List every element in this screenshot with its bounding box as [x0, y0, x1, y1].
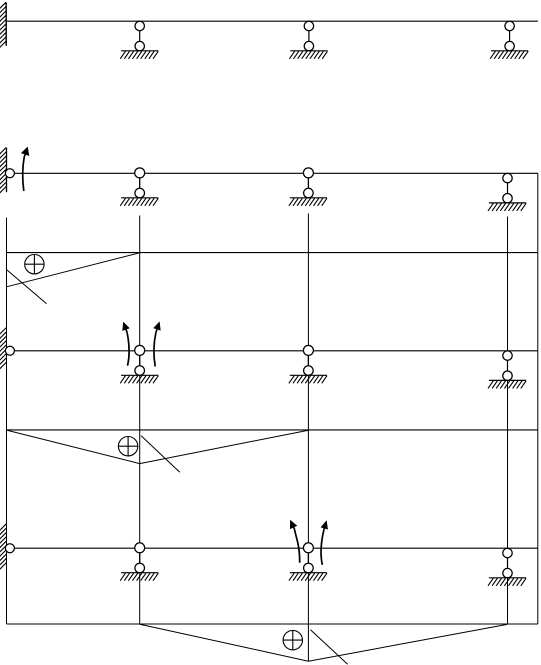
beam 1 roller support C — [289, 21, 327, 59]
beam 2 wall line — [6, 148, 8, 193]
M2 plus sign — [118, 437, 137, 456]
M3 diagram left sloping line — [140, 624, 309, 661]
beam 1 axis — [6, 20, 538, 22]
beam 4 hinge support B — [120, 543, 158, 581]
reference line at left support axis — [6, 218, 8, 625]
beam 3 axis — [14, 350, 537, 352]
M1 diagram sloping line — [7, 253, 140, 287]
M1 diagram baseline — [7, 252, 538, 254]
beam 2 roller support D — [488, 173, 526, 210]
M2 diagram sign slash — [141, 436, 180, 473]
beam 3 pin at wall — [5, 346, 14, 355]
moment arrow X2 left — [123, 322, 130, 365]
beam 3 hinge support B — [120, 345, 158, 383]
M1 plus sign — [25, 255, 44, 274]
beam 4 roller support D — [488, 548, 526, 586]
beam 2 axis — [14, 172, 538, 174]
beam 4 pin at wall — [5, 544, 14, 553]
beam 2 hinge support B — [120, 168, 158, 206]
beam 2 wall hatching — [0, 147, 6, 193]
beam 2 pin at wall — [5, 169, 14, 178]
beam 2 hinge support C — [289, 168, 327, 206]
moment arrow X2 right — [154, 322, 161, 366]
moment arrow X3 left — [290, 520, 299, 562]
beam 4 hinge support C — [289, 543, 327, 581]
reference line at support C axis — [307, 214, 309, 662]
beam 1 fixed support wall — [5, 3, 7, 46]
reference line at right beam end — [537, 173, 539, 624]
reference line at support D axis — [507, 217, 509, 625]
beam 4 wall hatching — [0, 524, 6, 570]
beam 1 roller support D — [490, 21, 528, 59]
M3 diagram sign slash — [311, 630, 348, 665]
M1 diagram sign slash — [7, 270, 47, 304]
beam 1 fixed support hatching — [0, 2, 6, 48]
reference line at support B axis — [139, 216, 141, 625]
M2 diagram baseline — [7, 429, 538, 431]
beam 4 axis — [14, 547, 537, 549]
M2 diagram left sloping line — [7, 430, 140, 464]
beam 3 hinge support C — [289, 345, 327, 383]
M3 plus sign — [283, 630, 302, 649]
beam 3 wall hatching — [0, 328, 6, 370]
M2 diagram right sloping line — [140, 430, 309, 463]
M3 diagram baseline — [7, 623, 538, 625]
moment arrow X1 — [22, 147, 29, 191]
M3 diagram right sloping line — [308, 624, 507, 661]
moment arrow X3 right — [321, 521, 328, 565]
beam 3 roller support D — [488, 351, 526, 389]
beam 1 roller support B — [120, 21, 158, 59]
